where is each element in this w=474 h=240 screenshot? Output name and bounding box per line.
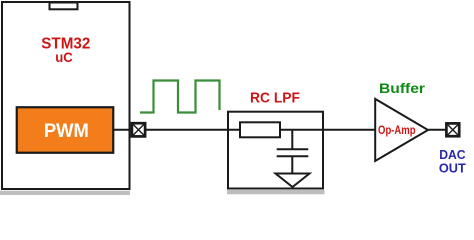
grey strip under STM32 box: [0, 191, 130, 195]
svg-text:Op-Amp: Op-Amp: [378, 125, 416, 137]
IC notch: [50, 3, 78, 10]
pin connector X2: [446, 123, 459, 136]
op-amp U2: [375, 99, 428, 161]
PWM square wave signal: [140, 81, 220, 113]
capacitor C1: [277, 149, 309, 156]
wire resistor to RC LPF output: [280, 129, 375, 131]
label DAC OUT: [439, 147, 466, 175]
wire PWM output to pin connector: [113, 129, 132, 131]
grey strip under RC LPF box: [227, 190, 325, 194]
svg-text:OUT: OUT: [439, 160, 466, 175]
pin connector X1: [132, 123, 145, 136]
STM32 microcontroller box U1: [2, 2, 130, 189]
svg-text:uC: uC: [55, 49, 73, 65]
wire op-amp output to DAC pin: [428, 129, 446, 131]
RC LPF enclosure box: [228, 112, 323, 189]
wire capacitor top lead: [291, 130, 293, 149]
svg-text:RC LPF: RC LPF: [250, 90, 300, 107]
PWM block: [17, 107, 114, 153]
wire pin connector to RC LPF input: [145, 129, 240, 131]
ground: [276, 174, 310, 188]
svg-text:Buffer: Buffer: [379, 81, 426, 96]
wire capacitor bottom lead: [291, 156, 293, 173]
svg-text:PWM: PWM: [44, 121, 89, 142]
resistor R1: [240, 122, 280, 137]
